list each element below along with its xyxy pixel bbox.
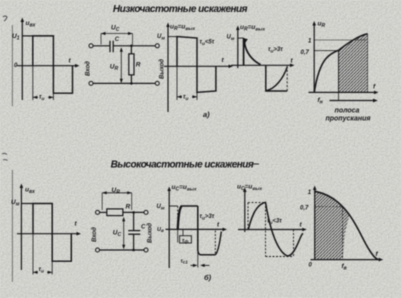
dimension U_C vertical [123, 218, 125, 248]
dimension U_C [101, 33, 133, 35]
A3 dimension extensions [176, 66, 178, 100]
A5 passband arrow [330, 100, 376, 102]
margin speck middle [2, 153, 8, 160]
wire top left [93, 45, 110, 47]
A3 t-axis [164, 65, 231, 67]
wire top right [123, 211, 144, 213]
node junction top [132, 211, 135, 214]
A4 t-axis [231, 64, 293, 66]
terminal input top [89, 44, 93, 48]
paper grain overlay [0, 0, 1, 1]
A4 y-axis [237, 28, 239, 68]
B4 t-axis [238, 229, 305, 231]
A3 waveform [177, 37, 216, 93]
B3 t-axis [166, 228, 226, 230]
B1 y-axis [20, 186, 22, 270]
B3 rise curve [178, 206, 182, 229]
terminal input top [96, 210, 100, 214]
B3 tau_f dimension ticks [177, 229, 179, 242]
A1 t-axis [17, 65, 78, 67]
B5 hatched passband area [315, 191, 350, 259]
wire top left [100, 211, 107, 213]
B3 recovery curve [215, 232, 221, 255]
A1 dimension arrows tau_i [33, 96, 38, 98]
B3 y-axis [168, 189, 170, 268]
B5 y-axis [314, 188, 316, 260]
terminal output top [144, 210, 148, 214]
A3 level line [168, 36, 177, 38]
A3 dimension arrows tau_i [177, 96, 182, 98]
A1 level line [22, 35, 33, 37]
A4 positive spike [244, 38, 261, 65]
dimension U_R vertical [120, 49, 122, 82]
B3 tau_f box label [180, 236, 192, 243]
resistor R stubs [130, 46, 132, 54]
capacitor C plates [109, 41, 111, 53]
B1 dimension extensions [32, 234, 34, 275]
A5 f-axis [309, 91, 377, 93]
B3 flat top [181, 205, 198, 207]
resistor R [107, 209, 123, 216]
A5 hatch right boundary [367, 34, 369, 93]
margin rule (page scan line) [11, 25, 13, 106]
terminal input bottom [89, 81, 93, 85]
node junction bottom [132, 249, 135, 252]
B3 trailing extension [197, 252, 199, 268]
A4 dashed vertical [286, 66, 288, 91]
B5 dashed vertical at f_v [342, 207, 344, 260]
terminal output bottom [155, 81, 159, 85]
node top junction [130, 45, 133, 48]
terminal output bottom [144, 248, 148, 252]
B1 dimension arrows tau_i [33, 271, 38, 273]
B3 dashed ideal leading edge [177, 206, 179, 229]
dimension U_R [102, 192, 132, 194]
A1 dimension extension lines [32, 66, 34, 100]
A4 level tick [238, 37, 244, 39]
B5 f-axis [311, 259, 382, 261]
A1 pulse waveform [33, 36, 73, 93]
B3 negative flat bottom [200, 254, 215, 256]
node bottom junction [130, 82, 133, 85]
wire top right [113, 45, 155, 47]
B1 t-axis [17, 233, 79, 235]
A5 boundary tick below axis [338, 93, 340, 101]
margin speck top [3, 16, 7, 21]
A5 y-axis [313, 24, 315, 93]
A1 y-axis [21, 20, 23, 100]
capacitor C plates [128, 230, 140, 232]
B1 level line [21, 203, 33, 205]
terminal input bottom [96, 248, 100, 252]
B3 dashed ideal end edge [214, 231, 216, 255]
resistor R [129, 54, 134, 75]
B3 trailing edge [198, 206, 201, 255]
A5 response curve [314, 34, 367, 93]
B4 y-axis [244, 190, 246, 232]
capacitor C stub bottom [133, 234, 135, 250]
A5 hatch left boundary [338, 50, 340, 92]
A4 negative spike [266, 65, 287, 91]
terminal output top [155, 44, 159, 48]
capacitor C stub top [133, 212, 135, 230]
wire bottom [93, 82, 155, 84]
B5 response curve [315, 191, 379, 259]
B4 dashed ideal pulse outline [247, 203, 249, 230]
A3 y-axis [167, 25, 169, 112]
A5 hatched passband area [339, 34, 368, 93]
B4 waveform curve [248, 202, 303, 255]
B3 level line [169, 205, 178, 207]
B1 pulse waveform [33, 204, 71, 262]
wire bottom [100, 249, 145, 251]
